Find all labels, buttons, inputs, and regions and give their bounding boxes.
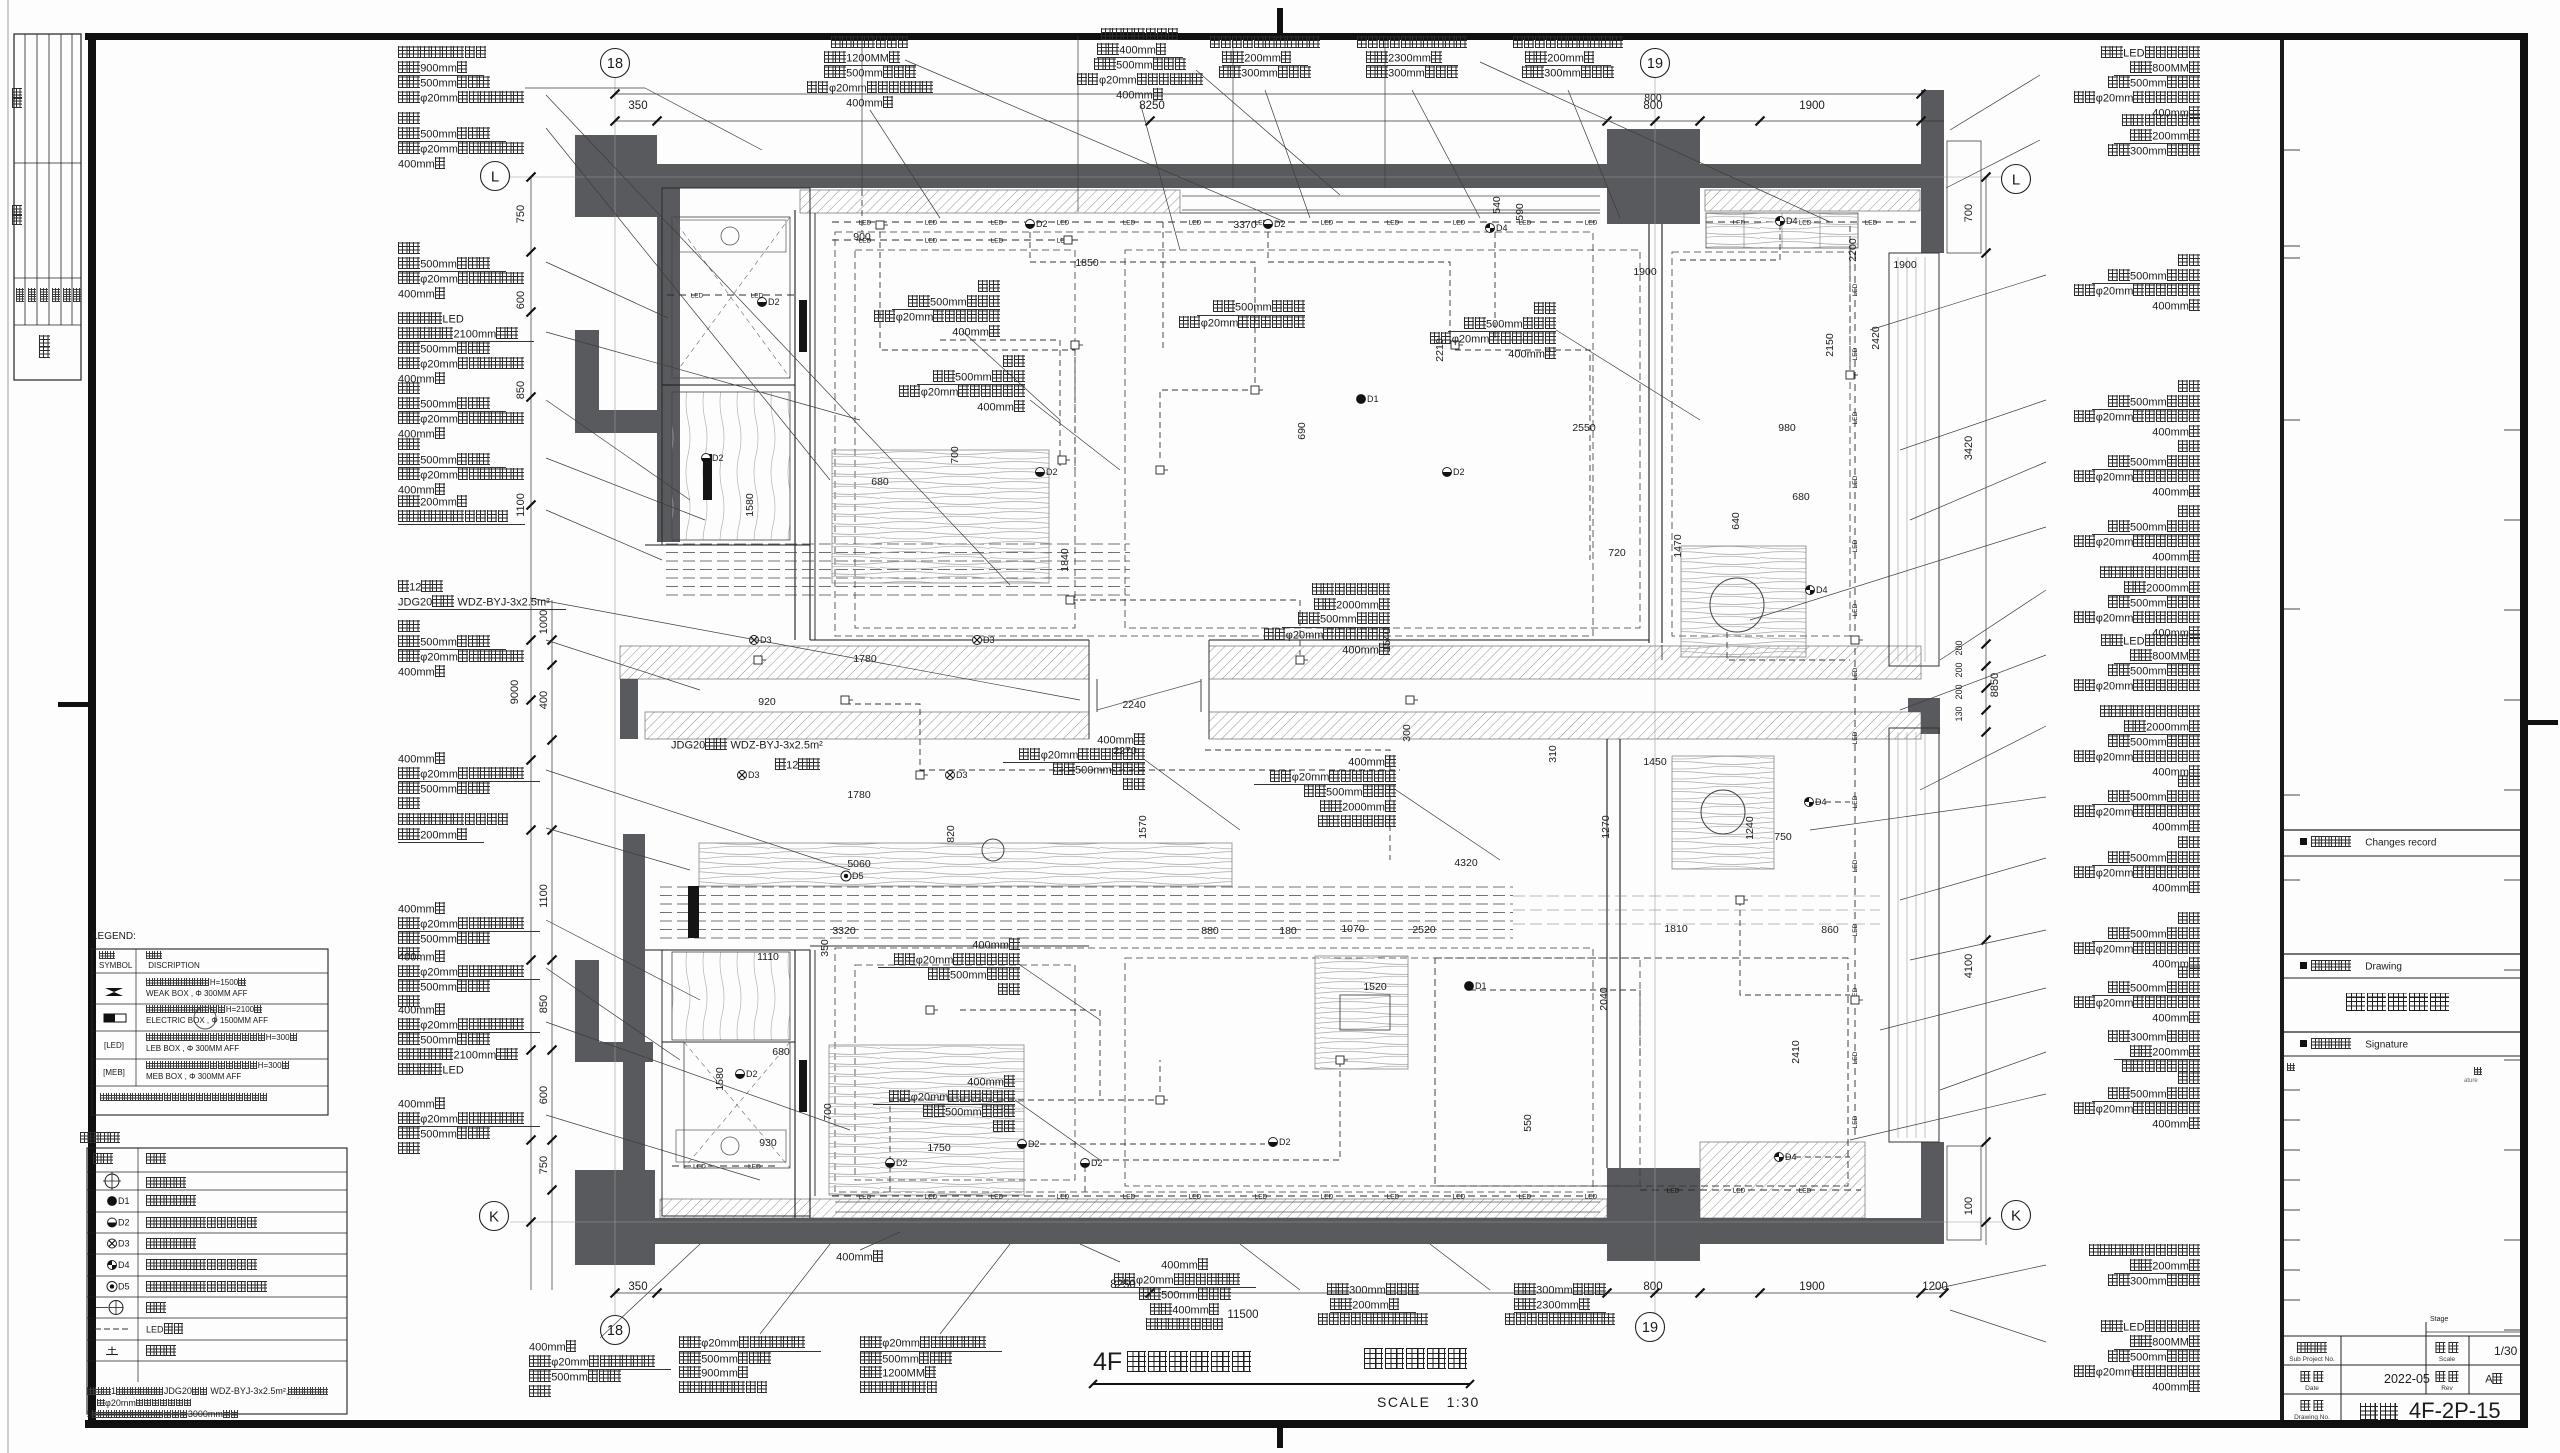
svg-text:1450: 1450	[1643, 756, 1667, 768]
svg-text:D2: D2	[1279, 1137, 1291, 1147]
svg-text:LED: LED	[991, 237, 1004, 244]
svg-text:D4: D4	[118, 1260, 130, 1270]
svg-text:D1: D1	[1475, 981, 1487, 991]
svg-text:1270: 1270	[1600, 815, 1612, 839]
svg-text:L: L	[2012, 172, 2020, 189]
svg-text:LED: LED	[1667, 1187, 1680, 1194]
svg-text:1850: 1850	[1075, 257, 1099, 269]
svg-text:[MEB]: [MEB]	[103, 1068, 125, 1077]
svg-text:LED: LED	[1585, 1193, 1598, 1200]
svg-text:2240: 2240	[1122, 699, 1146, 711]
svg-text:3370: 3370	[1233, 219, 1257, 231]
svg-text:920: 920	[758, 696, 776, 708]
svg-text:D5: D5	[118, 1282, 130, 1292]
svg-text:D4: D4	[1785, 1152, 1797, 1162]
svg-text:1810: 1810	[1664, 923, 1688, 935]
svg-text:350: 350	[819, 939, 831, 957]
svg-text:1520: 1520	[1363, 981, 1387, 993]
svg-text:D2: D2	[118, 1218, 130, 1228]
svg-text:820: 820	[945, 825, 957, 843]
svg-text:LED: LED	[1189, 219, 1202, 226]
svg-text:1000: 1000	[538, 610, 550, 634]
svg-text:900: 900	[853, 231, 871, 243]
svg-text:D4: D4	[1815, 797, 1827, 807]
svg-text:D2: D2	[1274, 219, 1286, 229]
svg-text:1070: 1070	[1341, 923, 1365, 935]
svg-text:18: 18	[607, 1323, 623, 1339]
svg-text:700: 700	[822, 1103, 834, 1121]
svg-text:D1: D1	[1367, 394, 1379, 404]
svg-text:D4: D4	[1496, 223, 1508, 233]
svg-text:LED: LED	[1852, 731, 1859, 744]
svg-text:350: 350	[628, 100, 647, 112]
svg-text:LED: LED	[1852, 411, 1859, 424]
svg-text:D4: D4	[1786, 216, 1798, 226]
svg-text:LED: LED	[1852, 923, 1859, 936]
svg-text:1110: 1110	[757, 951, 779, 963]
svg-text:D2: D2	[1046, 467, 1058, 477]
svg-text:3420: 3420	[1963, 436, 1975, 460]
svg-text:1580: 1580	[744, 493, 756, 517]
svg-text:D5: D5	[852, 871, 864, 881]
svg-text:D2: D2	[768, 297, 780, 307]
svg-text:200: 200	[1954, 662, 1964, 677]
svg-text:2520: 2520	[1412, 924, 1436, 936]
svg-text:D2: D2	[712, 453, 724, 463]
svg-text:750: 750	[538, 1156, 550, 1174]
svg-text:1470: 1470	[1672, 534, 1684, 558]
svg-text:980: 980	[1778, 422, 1796, 434]
svg-text:720: 720	[1608, 547, 1626, 559]
svg-text:LED: LED	[991, 219, 1004, 226]
svg-text:1570: 1570	[1137, 815, 1149, 839]
svg-text:LED: LED	[1852, 667, 1859, 680]
svg-text:880: 880	[1201, 925, 1219, 937]
svg-text:LED: LED	[691, 292, 704, 299]
svg-text:2200: 2200	[1847, 238, 1859, 262]
svg-text:D2: D2	[1091, 1158, 1103, 1168]
svg-text:4100: 4100	[1963, 954, 1975, 978]
svg-text:540: 540	[1491, 196, 1503, 214]
svg-text:3320: 3320	[832, 925, 856, 937]
svg-text:1900: 1900	[1799, 1281, 1825, 1293]
svg-text:1240: 1240	[1744, 816, 1756, 840]
svg-text:LED: LED	[1453, 219, 1466, 226]
svg-text:750: 750	[1774, 831, 1792, 843]
svg-text:310: 310	[1547, 745, 1559, 763]
svg-text:LED: LED	[1321, 1193, 1334, 1200]
svg-text:680: 680	[1792, 491, 1810, 503]
svg-text:300: 300	[1401, 724, 1413, 742]
svg-text:350: 350	[628, 1281, 647, 1293]
svg-text:400: 400	[538, 691, 550, 709]
svg-text:690: 690	[1296, 422, 1308, 440]
svg-text:D3: D3	[748, 770, 760, 780]
svg-text:D2: D2	[1453, 467, 1465, 477]
svg-text:D3: D3	[956, 770, 968, 780]
svg-text:4320: 4320	[1454, 857, 1478, 869]
svg-text:LED: LED	[1453, 1193, 1466, 1200]
svg-text:D2: D2	[1036, 219, 1048, 229]
svg-text:LED: LED	[1852, 795, 1859, 808]
svg-text:LED: LED	[1865, 219, 1878, 226]
svg-text:D3: D3	[118, 1239, 130, 1249]
svg-text:LED: LED	[1799, 1187, 1812, 1194]
svg-text:2410: 2410	[1790, 1040, 1802, 1064]
svg-text:LED: LED	[693, 1163, 706, 1170]
svg-text:2040: 2040	[1598, 987, 1610, 1011]
svg-text:LED: LED	[1852, 1051, 1859, 1064]
svg-text:550: 550	[1522, 1114, 1534, 1132]
svg-text:LED: LED	[1852, 347, 1859, 360]
svg-text:100: 100	[1963, 1197, 1975, 1215]
svg-text:680: 680	[871, 476, 889, 488]
svg-text:LED: LED	[1852, 475, 1859, 488]
svg-text:860: 860	[1821, 924, 1839, 936]
svg-text:2150: 2150	[1824, 333, 1836, 357]
svg-text:[LED]: [LED]	[104, 1041, 124, 1050]
svg-text:LED: LED	[859, 219, 872, 226]
svg-text:1900: 1900	[1893, 259, 1917, 271]
svg-text:800: 800	[1644, 92, 1662, 104]
svg-text:9000: 9000	[509, 680, 521, 704]
svg-text:1750: 1750	[927, 1142, 951, 1154]
svg-text:2550: 2550	[1572, 422, 1596, 434]
svg-text:680: 680	[772, 1046, 790, 1058]
svg-text:LED: LED	[1852, 539, 1859, 552]
svg-text:LED: LED	[925, 237, 938, 244]
svg-text:LED: LED	[1321, 219, 1334, 226]
svg-text:130: 130	[1954, 706, 1964, 721]
svg-text:590: 590	[1514, 203, 1526, 221]
svg-text:18: 18	[607, 56, 623, 72]
svg-text:LED: LED	[1852, 859, 1859, 872]
svg-text:LED: LED	[748, 1163, 761, 1170]
svg-text:K: K	[489, 1209, 499, 1226]
svg-text:1900: 1900	[1799, 100, 1825, 112]
svg-text:LED: LED	[1852, 283, 1859, 296]
svg-text:LED: LED	[1057, 219, 1070, 226]
svg-text:LED: LED	[1387, 1193, 1400, 1200]
svg-text:D1: D1	[118, 1196, 130, 1206]
svg-text:D2: D2	[896, 1158, 908, 1168]
svg-text:LED: LED	[1123, 1193, 1136, 1200]
svg-text:8850: 8850	[1989, 673, 2001, 697]
svg-text:LED: LED	[1057, 1193, 1070, 1200]
svg-text:1840: 1840	[1059, 548, 1071, 572]
svg-text:LED: LED	[1255, 1193, 1268, 1200]
svg-text:D3: D3	[983, 635, 995, 645]
svg-text:D4: D4	[1816, 585, 1828, 595]
svg-text:200: 200	[1954, 640, 1964, 655]
svg-text:750: 750	[515, 205, 527, 223]
svg-text:700: 700	[949, 446, 961, 464]
svg-text:930: 930	[759, 1137, 777, 1149]
svg-text:LED: LED	[1519, 1193, 1532, 1200]
svg-text:180: 180	[1279, 925, 1297, 937]
svg-text:1780: 1780	[853, 653, 877, 665]
svg-text:640: 640	[1730, 512, 1742, 530]
svg-text:LED: LED	[1387, 219, 1400, 226]
svg-text:LED: LED	[925, 219, 938, 226]
svg-text:1900: 1900	[1633, 266, 1657, 278]
svg-text:K: K	[2011, 1208, 2021, 1225]
svg-text:LED: LED	[1733, 1187, 1746, 1194]
svg-text:5060: 5060	[847, 858, 871, 870]
svg-text:D2: D2	[746, 1069, 758, 1079]
svg-text:D2: D2	[1028, 1139, 1040, 1149]
svg-text:LED: LED	[1123, 219, 1136, 226]
svg-text:LED: LED	[1189, 1193, 1202, 1200]
svg-text:1780: 1780	[847, 789, 871, 801]
svg-text:LED: LED	[1852, 1115, 1859, 1128]
svg-text:700: 700	[1963, 204, 1975, 222]
svg-text:LED: LED	[1585, 219, 1598, 226]
svg-text:D3: D3	[760, 635, 772, 645]
svg-text:1580: 1580	[714, 1067, 726, 1091]
svg-text:LED: LED	[1852, 603, 1859, 616]
